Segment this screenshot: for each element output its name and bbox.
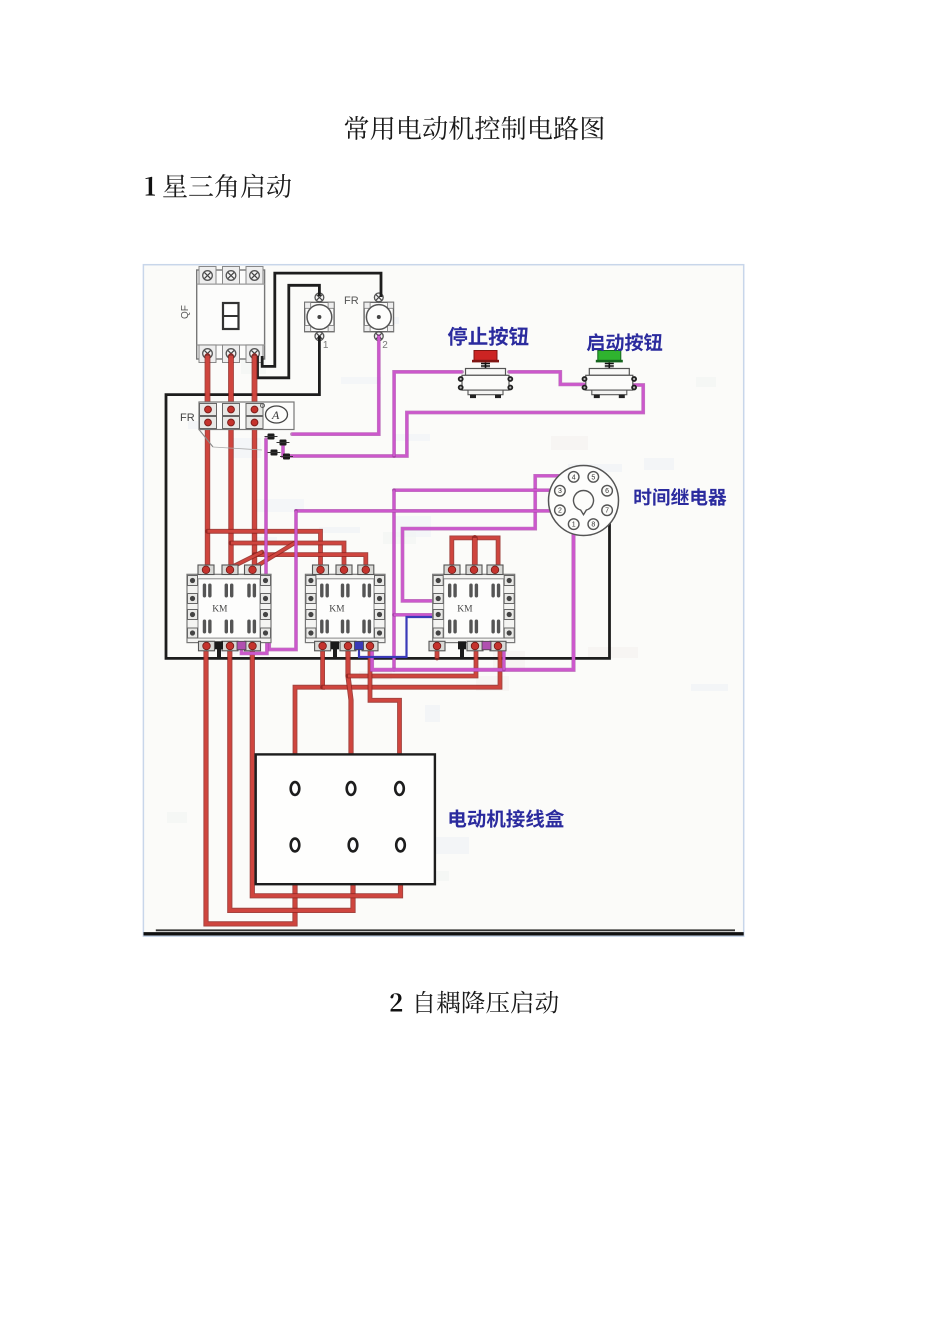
svg-text:7: 7 [605,508,609,515]
svg-text:KM: KM [329,605,345,615]
svg-text:2: 2 [558,508,562,515]
svg-text:KM: KM [457,605,473,615]
svg-text:1: 1 [323,340,329,351]
svg-text:4: 4 [572,474,576,481]
svg-text:5: 5 [591,474,595,481]
svg-text:1: 1 [572,522,576,529]
svg-text:2: 2 [382,340,388,351]
svg-text:QF: QF [180,305,191,319]
svg-text:8: 8 [591,522,595,529]
svg-text:FR: FR [344,295,359,307]
svg-text:6: 6 [605,488,609,495]
svg-text:3: 3 [558,488,562,495]
svg-text:A: A [271,408,280,422]
svg-text:KM: KM [212,605,228,615]
svg-text:FR: FR [180,412,195,424]
